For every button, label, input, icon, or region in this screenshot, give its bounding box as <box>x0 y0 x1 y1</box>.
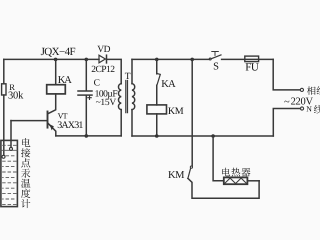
label thermometer char 接 <box>21 148 30 157</box>
svg-text:2CP12: 2CP12 <box>91 65 115 75</box>
wire: VT base lead from thermometer <box>11 120 47 122</box>
fuse FU <box>245 56 259 62</box>
wire: DC top bus (negative rail) <box>4 58 99 60</box>
resistor R 30k <box>2 84 6 95</box>
node: junction AC bus / KA contact <box>155 58 159 62</box>
wire: KM coil bottom lead <box>156 114 158 136</box>
wire: KA coil bottom lead to VT collector <box>48 94 56 114</box>
wire: switch S through fuse to phase corner <box>222 58 274 60</box>
wire: left vertical from bus to resistor R <box>3 59 5 83</box>
switch S pivot circle <box>209 58 211 60</box>
thermometer 电接点汞温度计 body <box>1 140 18 206</box>
label heater char 电 <box>222 168 230 177</box>
wire: primary top lead <box>131 59 133 83</box>
relay contact KA blade <box>157 74 160 86</box>
capacitor C bottom lead <box>85 96 87 136</box>
label thermometer char 度 <box>21 189 30 198</box>
wire: KM contact branch down from AC top bus <box>191 59 193 165</box>
svg-text:KM: KM <box>168 106 184 117</box>
label xian (phase) <box>317 86 320 95</box>
svg-text:C: C <box>94 78 100 88</box>
wire: phase line down and to terminal <box>273 59 300 90</box>
node: phase terminal circle <box>300 88 303 91</box>
heater element 电热器 body <box>224 177 248 184</box>
transformer T primary winding <box>132 84 135 110</box>
label xian (N) <box>314 105 320 114</box>
wire: secondary bottom lead <box>120 110 122 136</box>
label thermometer char 计 <box>21 199 30 208</box>
svg-text:3AX31: 3AX31 <box>57 120 83 131</box>
svg-text:T: T <box>125 72 131 82</box>
node: junction DC bus / KA coil <box>54 58 58 62</box>
wire: AC top bus from transformer to switch S <box>132 58 209 60</box>
switch S blade <box>211 55 221 59</box>
thermometer mercury level line <box>1 149 18 151</box>
svg-text:KM: KM <box>168 170 185 181</box>
label thermometer char 汞 <box>21 169 30 178</box>
label thermometer char 温 <box>21 179 30 188</box>
capacitor C polarity plus <box>88 96 91 99</box>
capacitor C top lead <box>85 59 87 90</box>
relay contact KM pivot circle <box>190 166 192 168</box>
heater element zigzag <box>225 178 247 183</box>
relay coil KM <box>147 105 167 114</box>
wire: bus to diode and diode to transformer secondary top <box>107 59 122 83</box>
wire: DC bottom bus (positive rail) <box>56 135 121 137</box>
node: junction neutral / heater <box>211 134 215 138</box>
relay contact KM blade <box>188 168 191 178</box>
svg-text:30k: 30k <box>8 90 24 101</box>
svg-text:N: N <box>306 104 312 113</box>
label xiang <box>307 86 316 95</box>
svg-text:JQX−4F: JQX−4F <box>41 46 76 58</box>
transformer T core <box>126 81 128 113</box>
wire: KM contact bottom lead to heater loop <box>188 178 259 198</box>
relay coil KA <box>47 85 66 94</box>
thermometer right contact circle <box>10 147 13 150</box>
transistor VT emitter lead with arrow <box>48 123 56 136</box>
transformer T secondary winding <box>118 84 121 110</box>
wire: AC bottom bus (neutral) <box>132 135 273 137</box>
diode VD triangle <box>99 55 105 63</box>
wire: KA contact to KM coil <box>156 85 158 105</box>
svg-text:~15V: ~15V <box>96 98 117 108</box>
wire: neutral terminal to AC bottom bus <box>273 109 300 137</box>
node: junction AC bus / KM contact branch <box>190 58 194 62</box>
label heater char 热 <box>232 168 241 177</box>
svg-text:KA: KA <box>161 79 176 90</box>
wire: primary bottom lead <box>131 110 133 136</box>
transistor VT 3AX31 base bar <box>47 112 49 128</box>
svg-text:FU: FU <box>245 62 259 74</box>
node: junction neutral / KM coil <box>155 134 159 138</box>
wire: heater left lead from neutral junction <box>213 136 224 181</box>
thermometer left contact circle <box>2 155 5 158</box>
wire: KA coil top lead <box>55 59 57 84</box>
node: neutral terminal circle <box>300 107 303 110</box>
wire: resistor to thermometer left contact <box>3 95 5 155</box>
thermometer right contact wire <box>10 121 12 148</box>
diode VD cathode bar <box>106 55 108 63</box>
relay contact KA (NO) upper lead <box>156 59 158 73</box>
label thermometer char 电 <box>22 138 30 147</box>
label thermometer char 点 <box>21 158 30 167</box>
node: junction DC bus / capacitor C <box>85 58 89 62</box>
svg-text:~: ~ <box>284 97 290 108</box>
wire: heater right lead <box>247 180 259 182</box>
svg-text:VD: VD <box>97 45 110 55</box>
svg-text:KA: KA <box>58 75 73 86</box>
switch S actuator mark <box>212 52 219 56</box>
svg-text:S: S <box>213 62 219 73</box>
capacitor C plates <box>78 90 92 92</box>
label heater char 器 <box>242 168 251 177</box>
node: junction DC bottom bus / capacitor <box>85 134 89 138</box>
thermometer liquid dashes <box>3 145 16 204</box>
